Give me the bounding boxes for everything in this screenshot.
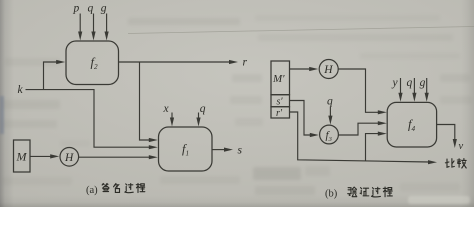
svg-text:f2: f2 <box>91 56 98 72</box>
bleed-through rows from reverse page <box>128 18 240 25</box>
svg-text:f3: f3 <box>326 130 332 144</box>
wire g arrow into f4 <box>426 78 428 96</box>
svg-text:g: g <box>101 3 107 15</box>
block s' (received signature part s) <box>271 95 290 107</box>
wire f3 output up into f4 second input <box>338 123 379 135</box>
wire q arrow into f4 <box>413 78 415 96</box>
wire s' into f3 <box>290 101 312 136</box>
wire p arrow into f2 <box>79 14 81 35</box>
wire v output of f4 down to comparison <box>437 125 455 142</box>
svg-text:H: H <box>323 64 333 76</box>
wire g arrow into f2 <box>106 14 108 35</box>
wire q arrow into f3 <box>329 107 331 119</box>
wire H down into f4 first input <box>338 69 379 112</box>
svg-text:q: q <box>88 3 94 15</box>
svg-text:x: x <box>163 103 170 115</box>
svg-text:M: M <box>16 150 28 164</box>
svg-text:q: q <box>407 77 413 89</box>
wire M to H <box>30 155 52 157</box>
label 比较 (compare result) <box>445 159 454 168</box>
svg-text:r′: r′ <box>276 108 283 119</box>
wire s output of f1 <box>212 149 226 151</box>
wire r output of f2 <box>119 61 232 63</box>
svg-text:g: g <box>420 77 426 89</box>
block r' (received signature part r) <box>271 107 290 118</box>
hash function H (verify side) <box>319 60 338 79</box>
wire x arrow into f1 <box>171 113 173 121</box>
block M (message) <box>14 140 31 172</box>
svg-text:H: H <box>64 152 74 164</box>
wire y arrow into f4 <box>400 78 402 96</box>
wire r' down and right to comparison <box>290 112 430 162</box>
svg-text:M′: M′ <box>272 73 285 85</box>
svg-text:y: y <box>392 77 399 89</box>
wire k branch up into f2 left input <box>44 62 59 90</box>
wire k horizontal then down to f1 middle input <box>26 90 151 148</box>
function block f4 <box>387 102 436 147</box>
svg-text:q: q <box>327 96 333 108</box>
wire q arrow into f2 <box>93 14 95 35</box>
svg-text:s′: s′ <box>277 97 284 108</box>
svg-text:(b): (b) <box>325 189 338 200</box>
svg-text:s: s <box>238 145 243 157</box>
function block f2 <box>66 41 119 85</box>
block M' (received message) <box>271 61 290 95</box>
wire q arrow into f1 <box>198 113 200 121</box>
wire r branch down into f1 top input <box>140 62 151 140</box>
svg-text:f4: f4 <box>408 118 415 134</box>
wire r' branch up into f4 third input <box>366 134 380 161</box>
svg-text:v: v <box>459 141 464 152</box>
svg-text:r: r <box>243 57 248 69</box>
wire H to f1 bottom input <box>79 156 151 158</box>
faint csdn watermark bottom right <box>408 196 470 204</box>
svg-text:q: q <box>200 103 206 115</box>
function block f3 <box>320 125 339 144</box>
svg-text:(a): (a) <box>86 185 98 196</box>
hash function H (sign side) <box>60 148 79 167</box>
svg-text:f1: f1 <box>182 142 189 158</box>
svg-text:p: p <box>73 3 80 15</box>
function block f1 <box>159 127 213 171</box>
svg-text:k: k <box>18 84 24 96</box>
wire M' to H <box>290 68 312 70</box>
